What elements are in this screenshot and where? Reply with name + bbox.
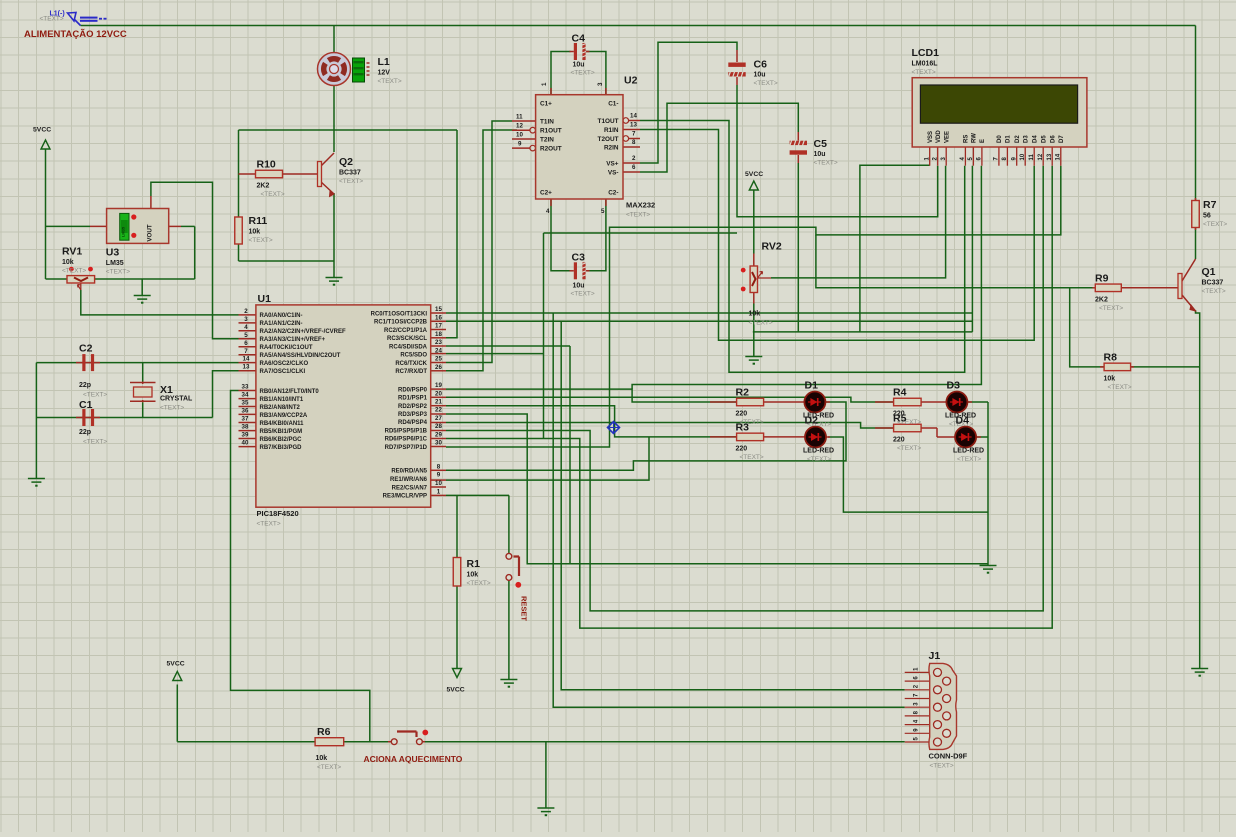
svg-text:ALIMENTAÇÃO 12VCC: ALIMENTAÇÃO 12VCC: [24, 29, 127, 40]
svg-text:29: 29: [435, 431, 442, 438]
svg-text:<TEXT>: <TEXT>: [249, 237, 273, 244]
svg-text:C1: C1: [79, 399, 93, 411]
svg-text:27: 27: [435, 415, 442, 422]
svg-text:<TEXT>: <TEXT>: [40, 16, 64, 23]
svg-text:CRYSTAL: CRYSTAL: [160, 396, 193, 403]
svg-text:RA1/AN1/C2IN-: RA1/AN1/C2IN-: [260, 321, 303, 327]
svg-text:10u: 10u: [814, 151, 826, 158]
svg-text:<TEXT>: <TEXT>: [754, 80, 778, 87]
svg-text:C1+: C1+: [540, 101, 552, 108]
svg-text:7: 7: [244, 348, 248, 355]
svg-text:RD3/PSP3: RD3/PSP3: [398, 412, 428, 418]
svg-text:<TEXT>: <TEXT>: [62, 268, 86, 275]
svg-text:10k: 10k: [749, 311, 761, 318]
svg-text:LED-RED: LED-RED: [953, 448, 984, 455]
svg-text:23: 23: [435, 339, 442, 346]
svg-text:3: 3: [597, 82, 604, 86]
svg-text:12: 12: [516, 123, 523, 130]
svg-text:RC4/SDI/SDA: RC4/SDI/SDA: [389, 344, 428, 350]
svg-text:10k: 10k: [467, 572, 479, 579]
svg-text:<TEXT>: <TEXT>: [626, 212, 650, 219]
svg-text:RE2/CS/AN7: RE2/CS/AN7: [392, 485, 428, 491]
svg-text:RC6/TX/CK: RC6/TX/CK: [395, 361, 427, 367]
svg-text:5VCC: 5VCC: [745, 171, 763, 178]
svg-text:<TEXT>: <TEXT>: [261, 191, 285, 198]
svg-text:22: 22: [435, 407, 442, 414]
svg-text:R3: R3: [736, 421, 750, 433]
svg-text:17: 17: [435, 323, 442, 330]
svg-text:RA0/AN0/C1IN-: RA0/AN0/C1IN-: [260, 313, 303, 319]
svg-text:12: 12: [1038, 153, 1044, 160]
svg-text:VSS: VSS: [928, 131, 934, 143]
svg-text:RC2/CCP1/P1A: RC2/CCP1/P1A: [384, 328, 428, 334]
svg-text:<TEXT>: <TEXT>: [930, 763, 954, 770]
svg-text:LM35: LM35: [106, 260, 124, 267]
svg-text:4: 4: [244, 324, 248, 331]
svg-text:35: 35: [242, 400, 249, 407]
svg-text:1: 1: [541, 82, 548, 86]
svg-text:VOUT: VOUT: [147, 224, 154, 241]
svg-text:D3: D3: [947, 380, 961, 392]
svg-text:RC7/RX/DT: RC7/RX/DT: [395, 369, 427, 375]
svg-text:RV1: RV1: [62, 246, 82, 258]
svg-text:RW: RW: [972, 133, 978, 143]
svg-text:15: 15: [435, 306, 442, 313]
svg-text:3: 3: [244, 316, 248, 323]
svg-text:R2: R2: [736, 387, 750, 399]
svg-text:<TEXT>: <TEXT>: [749, 320, 773, 327]
svg-text:30: 30: [435, 440, 442, 447]
svg-text:R2IN: R2IN: [604, 145, 619, 152]
svg-text:56: 56: [1203, 213, 1211, 220]
svg-text:RD5/PSP5/P1B: RD5/PSP5/P1B: [385, 428, 428, 434]
svg-text:20: 20: [435, 390, 442, 397]
svg-text:14: 14: [630, 113, 637, 120]
svg-text:14: 14: [1056, 153, 1062, 160]
svg-text:8: 8: [437, 463, 441, 470]
svg-text:<TEXT>: <TEXT>: [467, 580, 491, 587]
svg-text:RC3/SCK/SCL: RC3/SCK/SCL: [387, 336, 427, 342]
svg-text:<TEXT>: <TEXT>: [807, 456, 831, 463]
svg-text:RA2/AN2/C2IN+/VREF-/CVREF: RA2/AN2/C2IN+/VREF-/CVREF: [260, 329, 347, 335]
svg-text:10k: 10k: [62, 259, 74, 266]
svg-text:RB4/KBI0/AN11: RB4/KBI0/AN11: [260, 421, 305, 427]
svg-text:10: 10: [516, 132, 523, 139]
svg-text:5VCC: 5VCC: [447, 687, 465, 694]
svg-text:34: 34: [242, 392, 249, 399]
svg-text:R9: R9: [1095, 272, 1109, 284]
svg-text:C3: C3: [572, 252, 586, 264]
svg-text:R5: R5: [893, 413, 907, 425]
svg-text:<TEXT>: <TEXT>: [106, 269, 130, 276]
svg-text:R10: R10: [257, 159, 276, 171]
svg-text:U2: U2: [624, 75, 638, 87]
svg-text:D3: D3: [1023, 135, 1029, 143]
svg-text:2K2: 2K2: [257, 183, 270, 190]
svg-text:<TEXT>: <TEXT>: [897, 445, 921, 452]
svg-text:R1IN: R1IN: [604, 127, 619, 134]
svg-text:12V: 12V: [378, 70, 391, 77]
svg-text:VS+: VS+: [606, 161, 619, 168]
svg-text:RA5/AN4/SS/HLVDIN/C2OUT: RA5/AN4/SS/HLVDIN/C2OUT: [260, 353, 341, 359]
svg-text:8: 8: [632, 139, 636, 146]
svg-text:RD0/PSP0: RD0/PSP0: [398, 387, 428, 393]
svg-text:220: 220: [736, 411, 748, 418]
svg-text:26: 26: [435, 364, 442, 371]
svg-text:5VCC: 5VCC: [167, 661, 185, 668]
svg-text:<TEXT>: <TEXT>: [83, 439, 107, 446]
svg-text:D1: D1: [1006, 135, 1012, 143]
svg-text:RD6/PSP6/P1C: RD6/PSP6/P1C: [385, 437, 428, 443]
svg-text:10u: 10u: [573, 283, 585, 290]
svg-text:13: 13: [630, 122, 637, 129]
svg-text:RE0/RD/AN5: RE0/RD/AN5: [391, 469, 427, 475]
svg-text:D2: D2: [1015, 135, 1021, 143]
svg-text:<TEXT>: <TEXT>: [912, 69, 936, 76]
svg-text:D4: D4: [1032, 135, 1038, 143]
svg-text:LCD1: LCD1: [912, 47, 940, 59]
svg-text:R7: R7: [1203, 199, 1217, 211]
svg-text:LM35: LM35: [121, 226, 126, 237]
svg-text:RA4/T0CKI/C1OUT: RA4/T0CKI/C1OUT: [260, 345, 313, 351]
svg-text:10k: 10k: [1104, 375, 1116, 382]
svg-text:VDD: VDD: [936, 130, 942, 143]
svg-text:11: 11: [1029, 153, 1035, 160]
svg-text:VS-: VS-: [608, 170, 619, 177]
svg-text:LED-RED: LED-RED: [803, 448, 834, 455]
svg-text:RESET: RESET: [520, 596, 529, 621]
svg-text:RD4/PSP4: RD4/PSP4: [398, 420, 428, 426]
svg-text:D6: D6: [1050, 135, 1056, 143]
svg-text:10u: 10u: [573, 62, 585, 69]
svg-text:R8: R8: [1104, 351, 1118, 363]
svg-text:37: 37: [242, 416, 249, 423]
svg-text:RA6/OSC2/CLKO: RA6/OSC2/CLKO: [260, 361, 309, 367]
svg-text:J1: J1: [929, 650, 941, 662]
svg-text:U3: U3: [106, 247, 120, 259]
svg-text:<TEXT>: <TEXT>: [1108, 384, 1132, 391]
svg-text:T2IN: T2IN: [540, 137, 554, 144]
svg-text:<TEXT>: <TEXT>: [1203, 221, 1227, 228]
svg-text:<TEXT>: <TEXT>: [1099, 305, 1123, 312]
svg-text:Q2: Q2: [339, 156, 353, 168]
svg-text:33: 33: [242, 384, 249, 391]
svg-text:25: 25: [435, 356, 442, 363]
svg-text:2: 2: [244, 308, 248, 315]
svg-text:<TEXT>: <TEXT>: [571, 291, 595, 298]
svg-text:13: 13: [243, 364, 250, 371]
svg-text:24: 24: [435, 347, 442, 354]
svg-text:22p: 22p: [79, 382, 91, 389]
svg-text:ACIONA AQUECIMENTO: ACIONA AQUECIMENTO: [364, 754, 463, 764]
svg-text:RC5/SDO: RC5/SDO: [400, 353, 427, 359]
svg-text:R2OUT: R2OUT: [540, 146, 562, 153]
svg-text:MAX232: MAX232: [626, 201, 655, 210]
svg-text:RC1/T1OSI/CCP2B: RC1/T1OSI/CCP2B: [374, 320, 428, 326]
svg-text:RD7/PSP7/P1D: RD7/PSP7/P1D: [385, 445, 428, 451]
svg-text:PIC18F4520: PIC18F4520: [257, 509, 299, 518]
svg-text:10k: 10k: [249, 229, 261, 236]
svg-text:10: 10: [435, 480, 442, 487]
svg-text:BC337: BC337: [339, 170, 361, 177]
svg-text:2K2: 2K2: [1095, 296, 1108, 303]
svg-text:<TEXT>: <TEXT>: [83, 392, 107, 399]
svg-text:BC337: BC337: [1202, 280, 1224, 287]
svg-text:RB5/KBI1/PGM: RB5/KBI1/PGM: [260, 429, 303, 435]
svg-text:36: 36: [242, 408, 249, 415]
svg-text:7: 7: [632, 131, 636, 138]
svg-text:<TEXT>: <TEXT>: [257, 521, 281, 528]
svg-text:T1OUT: T1OUT: [598, 118, 619, 125]
svg-text:1: 1: [437, 488, 441, 495]
svg-text:RE1/WR/AN6: RE1/WR/AN6: [390, 477, 428, 483]
svg-text:C1-: C1-: [608, 101, 618, 108]
svg-text:RB0/AN12/FLT0/INT0: RB0/AN12/FLT0/INT0: [260, 389, 320, 395]
svg-text:10k: 10k: [316, 755, 328, 762]
svg-text:5VCC: 5VCC: [33, 127, 51, 134]
svg-text:5: 5: [244, 332, 248, 339]
svg-text:RB2/AN8/INT2: RB2/AN8/INT2: [260, 405, 301, 411]
svg-text:L1: L1: [378, 56, 390, 68]
svg-text:D1: D1: [805, 380, 819, 392]
svg-text:<TEXT>: <TEXT>: [317, 764, 341, 771]
svg-text:38: 38: [242, 424, 249, 431]
svg-text:22p: 22p: [79, 429, 91, 436]
svg-text:R1: R1: [467, 558, 481, 570]
svg-text:C2-: C2-: [608, 190, 618, 197]
svg-text:40: 40: [242, 440, 249, 447]
svg-text:C5: C5: [814, 138, 828, 150]
svg-text:220: 220: [736, 445, 748, 452]
svg-text:R11: R11: [249, 215, 268, 227]
svg-text:<TEXT>: <TEXT>: [160, 405, 184, 412]
svg-text:R4: R4: [893, 387, 907, 399]
svg-text:D4: D4: [956, 415, 970, 427]
svg-text:14: 14: [243, 356, 250, 363]
svg-text:C4: C4: [572, 33, 586, 45]
svg-text:RB3/AN9/CCP2A: RB3/AN9/CCP2A: [260, 413, 308, 419]
svg-text:<TEXT>: <TEXT>: [740, 454, 764, 461]
svg-text:D5: D5: [1041, 135, 1047, 143]
svg-text:19: 19: [435, 382, 442, 389]
svg-text:18: 18: [435, 331, 442, 338]
svg-text:<TEXT>: <TEXT>: [1202, 288, 1226, 295]
svg-text:RA3/AN3/C1IN+/VREF+: RA3/AN3/C1IN+/VREF+: [260, 337, 326, 343]
svg-text:RS: RS: [964, 135, 970, 143]
svg-text:39: 39: [242, 432, 249, 439]
svg-text:220: 220: [893, 437, 905, 444]
svg-text:D2: D2: [805, 415, 819, 427]
svg-text:RB6/KBI2/PGC: RB6/KBI2/PGC: [260, 437, 303, 443]
svg-text:<TEXT>: <TEXT>: [571, 70, 595, 77]
svg-text:13: 13: [1047, 153, 1053, 160]
svg-text:<TEXT>: <TEXT>: [957, 456, 981, 463]
svg-text:2: 2: [632, 155, 636, 162]
svg-text:D7: D7: [1059, 135, 1065, 143]
svg-text:C6: C6: [754, 59, 768, 71]
svg-text:28: 28: [435, 423, 442, 430]
svg-text:RC0/T1OSO/T13CKI: RC0/T1OSO/T13CKI: [371, 311, 428, 317]
svg-text:11: 11: [516, 114, 523, 121]
svg-text:D0: D0: [997, 135, 1003, 143]
svg-text:9: 9: [437, 472, 441, 479]
svg-text:R6: R6: [317, 726, 331, 738]
svg-text:T2OUT: T2OUT: [598, 136, 619, 143]
svg-text:21: 21: [435, 399, 442, 406]
svg-text:<TEXT>: <TEXT>: [814, 160, 838, 167]
svg-text:10: 10: [1020, 153, 1026, 160]
svg-text:RV2: RV2: [762, 241, 782, 253]
svg-text:VEE: VEE: [944, 131, 950, 143]
svg-text:RD2/PSP2: RD2/PSP2: [398, 404, 428, 410]
svg-text:<TEXT>: <TEXT>: [378, 78, 402, 85]
svg-text:U1: U1: [258, 293, 272, 305]
svg-text:6: 6: [632, 164, 636, 171]
svg-text:Q1: Q1: [1202, 266, 1216, 278]
svg-text:RE3/MCLR/VPP: RE3/MCLR/VPP: [383, 494, 427, 500]
svg-text:CONN-D9F: CONN-D9F: [929, 752, 968, 761]
svg-text:<TEXT>: <TEXT>: [339, 178, 363, 185]
svg-text:RB1/AN10/INT1: RB1/AN10/INT1: [260, 397, 304, 403]
svg-text:LM016L: LM016L: [912, 61, 939, 68]
svg-text:10u: 10u: [754, 72, 766, 79]
svg-text:6: 6: [244, 340, 248, 347]
svg-text:16: 16: [435, 314, 442, 321]
svg-text:9: 9: [518, 141, 522, 148]
svg-text:RB7/KBI3/PGD: RB7/KBI3/PGD: [260, 445, 303, 451]
svg-text:X1: X1: [160, 384, 173, 396]
svg-text:C2+: C2+: [540, 190, 552, 197]
svg-text:4: 4: [546, 208, 550, 215]
svg-text:RA7/OSC1/CLKI: RA7/OSC1/CLKI: [260, 369, 306, 375]
svg-text:RD1/PSP1: RD1/PSP1: [398, 396, 428, 402]
svg-text:E: E: [980, 139, 986, 143]
svg-text:C2: C2: [79, 343, 93, 355]
svg-text:T1IN: T1IN: [540, 119, 554, 126]
svg-text:5: 5: [601, 208, 605, 215]
svg-text:R1OUT: R1OUT: [540, 128, 562, 135]
